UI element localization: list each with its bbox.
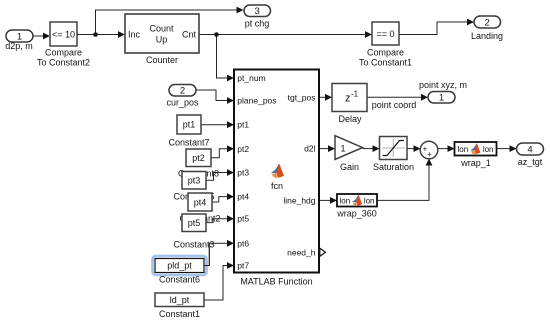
svg-text:pt4: pt4 [194,198,207,208]
svg-text:Constant1: Constant1 [159,309,200,319]
svg-text:lon: lon [364,197,375,206]
svg-text:Landing: Landing [471,31,503,41]
svg-text:3: 3 [255,6,260,17]
svg-text:Up: Up [156,35,168,45]
svg-text:pt4: pt4 [237,192,249,202]
svg-text:d2p, m: d2p, m [5,41,33,51]
svg-text:pt3: pt3 [188,176,201,186]
svg-text:z: z [345,93,351,105]
svg-text:Delay: Delay [338,114,362,124]
svg-text:Cnt: Cnt [182,30,197,40]
svg-text:-1: -1 [351,90,359,99]
svg-text:pt2: pt2 [192,153,205,163]
svg-text:ld_pt: ld_pt [170,295,190,305]
svg-text:Compare: Compare [367,48,404,58]
svg-text:Gain: Gain [340,162,359,172]
svg-text:pt7: pt7 [237,261,249,271]
svg-text:tgt_pos: tgt_pos [288,92,316,102]
svg-text:fcn: fcn [271,181,283,191]
svg-text:pt5: pt5 [237,214,249,224]
svg-text:Constant7: Constant7 [168,138,209,148]
svg-text:To Constant1: To Constant1 [359,58,412,68]
svg-text:== 0: == 0 [376,29,394,39]
svg-text:pld_pt: pld_pt [167,261,192,271]
svg-text:Constant6: Constant6 [159,275,200,285]
svg-text:Count: Count [149,24,174,34]
svg-text:2: 2 [485,18,490,29]
svg-text:az_tgt: az_tgt [518,157,543,167]
svg-text:lon: lon [483,145,494,154]
svg-text:pt1: pt1 [237,120,249,130]
svg-text:pt5: pt5 [188,218,201,228]
svg-text:2: 2 [180,86,185,97]
svg-text:To Constant2: To Constant2 [37,58,90,68]
svg-text:Compare: Compare [45,48,82,58]
svg-text:pt6: pt6 [237,238,249,248]
svg-text:MATLAB Function: MATLAB Function [240,277,312,287]
svg-text:need_h: need_h [287,247,316,257]
svg-text:wrap_360: wrap_360 [336,209,377,219]
svg-text:1: 1 [340,144,345,154]
svg-text:1: 1 [439,93,444,104]
svg-text:d2l: d2l [304,144,315,154]
svg-text:+: + [427,150,432,159]
svg-text:pt chg: pt chg [245,19,270,29]
svg-text:plane_pos: plane_pos [237,95,276,105]
svg-text:<= 10: <= 10 [52,30,75,40]
svg-text:wrap_1: wrap_1 [460,158,491,168]
svg-text:lon: lon [340,197,351,206]
svg-text:pt2: pt2 [237,144,249,154]
svg-text:lon: lon [458,145,469,154]
svg-text:4: 4 [527,145,532,156]
svg-text:point coord: point coord [372,100,417,110]
svg-text:pt_num: pt_num [237,73,265,83]
svg-text:Constant3: Constant3 [173,240,214,250]
svg-text:pt1: pt1 [183,120,196,130]
svg-text:Inc: Inc [128,30,141,40]
svg-text:pt3: pt3 [237,168,249,178]
svg-text:line_hdg: line_hdg [283,195,315,205]
svg-text:Counter: Counter [146,55,178,65]
svg-text:cur_pos: cur_pos [166,98,199,108]
svg-text:point xyz, m: point xyz, m [419,80,467,90]
svg-text:Saturation: Saturation [373,162,414,172]
